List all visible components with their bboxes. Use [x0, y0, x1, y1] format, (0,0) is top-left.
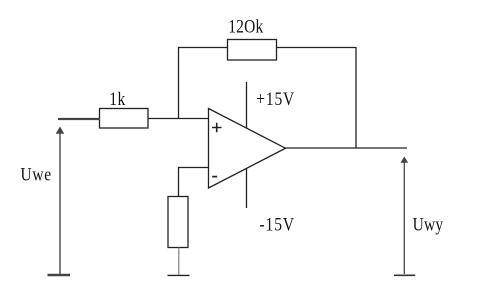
svg-text:12Ok: 12Ok	[228, 16, 263, 37]
svg-text:+15V: +15V	[256, 89, 295, 110]
svg-text:-15V: -15V	[260, 214, 295, 235]
svg-text:Uwy: Uwy	[413, 214, 444, 235]
svg-text:Uwe: Uwe	[21, 164, 52, 185]
svg-text:1k: 1k	[109, 89, 126, 110]
